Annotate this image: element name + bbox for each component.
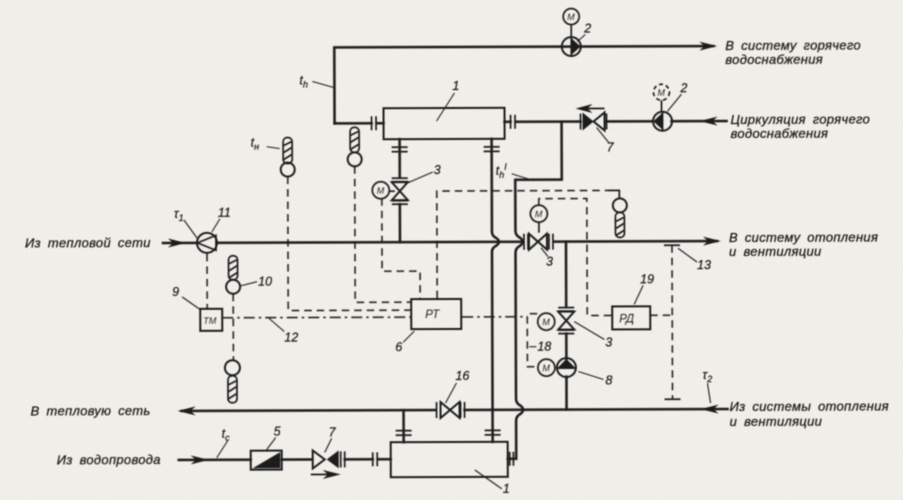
flange on HX1 bottom-left stub — [392, 147, 408, 152]
thermometer t_n (outdoor sensor) — [281, 138, 295, 177]
wire: dashed from sensor 10 down past TM line to return sensor — [232, 294, 234, 360]
label 13 — [678, 248, 711, 272]
svg-text:8: 8 — [605, 373, 612, 387]
wire: supply main from elevator to arrow — [163, 237, 721, 248]
wire: dashed from motor of valve 3 (HX1) to PT top — [382, 198, 420, 298]
svg-text:2: 2 — [583, 22, 591, 36]
svg-text:В систему отопления: В систему отопления — [729, 230, 878, 246]
label 3 (valve under HX1) — [405, 163, 441, 184]
flange on HX1 bottom-right stub — [484, 147, 500, 152]
motor M of circulation pump (dashed circle) — [653, 84, 669, 111]
label 5 — [267, 425, 281, 450]
thermometer (supply main sensor, hanging) — [613, 198, 627, 237]
svg-text:и вентиляции: и вентиляции — [729, 244, 822, 259]
flange at HX1 left port — [372, 116, 384, 130]
svg-text:18: 18 — [537, 340, 551, 354]
wire: dashed from elevator down to TM — [206, 254, 208, 308]
label 12 — [268, 318, 298, 345]
flange on HX2 top-right stub — [485, 430, 501, 435]
net label: Из тепловой сети — [25, 235, 151, 250]
net label: Циркуляция горячего водоснабжения — [731, 112, 871, 141]
svg-text:19: 19 — [640, 272, 654, 286]
wire: circulation inlet with left arrow — [672, 117, 727, 126]
svg-text:3: 3 — [605, 335, 612, 349]
valve 3 (supply main, gate valve with motor) — [524, 234, 553, 250]
wire: dashed supply temp sensor line to PT top — [437, 190, 620, 298]
wire: dash-dot from PT to motor bracket — [462, 316, 527, 318]
wire: dash-dot from TM to PT — [222, 316, 410, 319]
svg-text:В тепловую сеть: В тепловую сеть — [31, 403, 151, 418]
svg-text:7: 7 — [607, 140, 615, 154]
wire: cold water inlet — [179, 455, 251, 464]
label t_n — [251, 136, 280, 152]
thermometer (HX1 inlet sensor) — [348, 127, 362, 166]
wire: HX1 bottom right riser (crosses supply, joins return) — [492, 139, 500, 410]
svg-text:Циркуляция горячего: Циркуляция горячего — [731, 112, 871, 127]
label 6 — [395, 331, 414, 354]
svg-text:Из тепловой сети: Из тепловой сети — [25, 235, 151, 250]
svg-text:5: 5 — [274, 425, 281, 439]
net label: В систему горячего водоснабжения — [725, 38, 861, 67]
label 16 — [445, 369, 469, 403]
svg-text:М: М — [377, 186, 385, 196]
motor M of pump 8 — [538, 359, 555, 376]
label 2 (circulation pump) — [667, 81, 687, 111]
motor M of mixing valve 3 — [538, 313, 555, 330]
label 9 — [172, 285, 199, 309]
svg-text:10: 10 — [258, 275, 272, 289]
pump 2 (circulation pump) — [653, 112, 672, 131]
flange at HX2 right port — [510, 452, 514, 466]
elevator 11 — [197, 233, 217, 253]
net label: Из системы отопления и вентиляции — [730, 398, 889, 429]
label tau_1 — [174, 207, 197, 238]
svg-text:М: М — [535, 209, 543, 219]
svg-text:7: 7 — [329, 425, 337, 439]
wire: dashed from supply valve motor M up-right-down to RD regulator — [539, 198, 611, 315]
pump 8 (mixing pump) — [557, 358, 576, 377]
svg-text:3: 3 — [546, 255, 553, 269]
regulator RD box 19 — [612, 306, 650, 329]
wire: HX1 bottom left port down to valve 3 — [398, 139, 401, 177]
wire: HX2 top-left stub to return main — [402, 410, 405, 442]
svg-text:М: М — [542, 363, 550, 373]
svg-text:Из системы отопления: Из системы отопления — [730, 398, 889, 414]
heat exchanger 1 (bottom, water heater stage I) — [391, 442, 508, 477]
svg-text:и вентиляции: и вентиляции — [730, 414, 823, 429]
node: tee to heat exchanger 1 left port — [335, 122, 372, 125]
net label: Из водопровода — [57, 452, 161, 467]
net label: В тепловую сеть — [31, 403, 151, 418]
flow arrow (right) below valve 7 — [311, 470, 341, 479]
label 1 (bottom HX) — [475, 470, 510, 496]
filter 5 (mud filter) — [251, 451, 282, 470]
flow arrow (left) above valve 7 — [575, 104, 604, 113]
svg-text:1: 1 — [503, 482, 510, 496]
label 10 — [241, 275, 272, 289]
svg-text:РД: РД — [619, 313, 634, 325]
valve 3 (under HX1, gate valve with motor) — [392, 178, 408, 204]
svg-text:Из водопровода: Из водопровода — [57, 452, 161, 467]
svg-text:3: 3 — [434, 163, 441, 177]
motor M of top pump — [563, 9, 579, 37]
motor M of valve 3 (under HX1) — [372, 182, 395, 199]
thermometer 10 (ball sensor) — [226, 256, 240, 294]
label tau_2 — [702, 368, 712, 403]
svg-text:М: М — [657, 88, 665, 98]
wire: dashed from HX1 inlet sensor to PT regulator — [355, 166, 410, 302]
thermometer (return main sensor, hanging) — [225, 360, 240, 403]
wire: valve 7 to circulation pump — [607, 120, 653, 123]
wire: return main — [178, 405, 728, 416]
wire: interstage riser from circulation tee down to HX2 right port — [507, 122, 563, 459]
svg-text:В систему горячего: В систему горячего — [725, 38, 861, 53]
svg-text:1: 1 — [452, 79, 459, 93]
svg-text:13: 13 — [697, 258, 711, 272]
dashed group bracket 18 for motors — [527, 314, 537, 367]
wire: circulation pipe from HX1 to check valve 7 — [516, 120, 581, 123]
svg-text:2: 2 — [679, 81, 687, 95]
label 7 (cold water check valve) — [325, 425, 337, 452]
label 18 — [529, 340, 551, 354]
pump 2 (hot water supply pump, on top pipe) — [562, 37, 581, 56]
label t_h — [299, 73, 333, 89]
wire: dashed from t_n sensor to PT regulator — [288, 176, 410, 310]
wire: filter to check valve 7 — [282, 458, 312, 461]
svg-text:водоснабжения: водоснабжения — [731, 126, 829, 141]
svg-text:11: 11 — [218, 206, 231, 220]
svg-text:6: 6 — [395, 340, 402, 354]
wire: check valve to HX2 — [345, 458, 373, 461]
svg-text:9: 9 — [172, 285, 179, 299]
svg-text:16: 16 — [455, 369, 469, 383]
label 11 — [212, 206, 231, 232]
wire: HX2 top-right stub (continues riser) — [491, 410, 494, 442]
label 8 (pump) — [578, 371, 612, 387]
label 7 (circulation valve) — [597, 127, 615, 154]
wire: dashed pressure impulse line with T-bars — [650, 245, 681, 399]
wire: mixing branch from supply junction down through valve and pump 8 — [565, 242, 568, 410]
wire: hot water supply top pipe — [334, 42, 717, 124]
wire: valve 3 down to supply main — [399, 204, 402, 242]
motor M of supply valve 3 — [530, 205, 547, 233]
label 2 (top pump) — [577, 22, 591, 42]
svg-text:водоснабжения: водоснабжения — [725, 52, 823, 67]
label 3 (supply valve) — [541, 248, 553, 269]
label t_h^I — [496, 162, 534, 181]
regulator PT box 6 — [411, 299, 461, 329]
svg-text:РТ: РТ — [425, 309, 440, 321]
heat exchanger 1 (top, water heater stage II) — [384, 108, 505, 139]
svg-text:М: М — [567, 12, 575, 22]
label t_c — [217, 427, 231, 458]
valve 3 (mixing branch, gate valve) — [558, 308, 574, 334]
heat meter TM box 9 — [200, 309, 222, 331]
label 19 — [634, 272, 654, 304]
net label: В систему отопления и вентиляции — [729, 230, 878, 260]
svg-text:ТМ: ТМ — [203, 316, 217, 326]
check valve 7 (circulation) — [581, 112, 607, 130]
valve 16 (return main gate valve) — [437, 402, 465, 418]
svg-text:12: 12 — [284, 331, 298, 345]
svg-text:М: М — [542, 317, 550, 327]
label 1 (top HX) — [436, 79, 459, 121]
flange at HX2 left port — [373, 452, 391, 466]
flange at HX1 right port — [505, 115, 516, 129]
label 3 (mixing valve) — [574, 321, 612, 349]
flange on HX2 top-left stub — [396, 431, 412, 436]
check valve 7 (cold water) — [313, 450, 345, 468]
